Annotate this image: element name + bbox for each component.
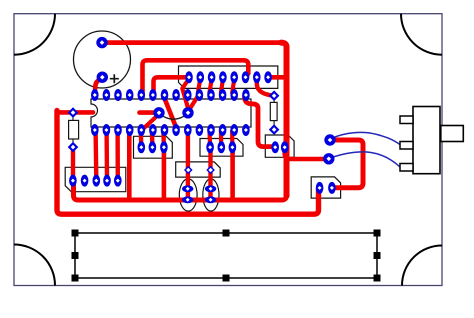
wires box X1 pads up to IC1 bottom pads	[139, 131, 144, 147]
wire diag round pad1 to IC1 bottom pad5	[144, 115, 159, 129]
wire rail B: left vertical from y112 down, right along bottom to low-right box pad	[57, 111, 319, 215]
connector X1 3-pad box	[134, 136, 173, 158]
via pads R1	[68, 107, 79, 152]
wire box X2 pad3 down to rail A	[230, 148, 235, 198]
jumper JP1 diamond pads	[184, 166, 215, 175]
box X1 pads	[138, 141, 168, 153]
wire column jumper/caps C2	[186, 131, 190, 200]
wire IC2 pad1 down-left-down to round jumper pad2	[182, 79, 189, 109]
wire y77 from IC pad6 to IC2 pad1	[154, 77, 189, 94]
IC U1 pads bottom row	[91, 124, 250, 136]
wire main vertical right side	[281, 43, 287, 196]
selected rectangle component	[75, 233, 377, 278]
corner arc top-right	[401, 14, 442, 55]
jumper round pads	[153, 107, 193, 118]
capacitor C1 pads	[96, 37, 108, 83]
connector X2 3-pad box	[200, 139, 243, 157]
airwire 1	[331, 132, 400, 144]
electrolytic cap C2 outline	[179, 179, 197, 211]
wire IC1 pad4-bottom down to rail A	[127, 131, 132, 198]
via pads R2	[269, 90, 280, 134]
wire IC2 pad7 curve to via R2 top	[257, 78, 274, 96]
wire stub to round pad jumper 1	[140, 110, 156, 115]
component box 2-pad mid-right	[265, 135, 294, 157]
corner arc top-left	[14, 14, 55, 55]
wire via2 down to 5-box pad1	[71, 148, 75, 178]
wire box X1 pad3 down to rail A	[162, 148, 167, 198]
connector J1 pin 1	[400, 116, 413, 124]
jumper JP1 box	[176, 162, 221, 177]
wire main horiz: cap C1 top pad to right side	[103, 40, 281, 45]
wire column jumper/caps C3	[208, 148, 212, 200]
board outline	[14, 14, 442, 286]
electrolytic cap C3 outline	[203, 179, 219, 211]
wire IC1 pad14 bend down to mid-right box pad1	[245, 97, 273, 147]
wire mid-right box pad2 down-right to round pad, y159	[285, 149, 325, 160]
wire diag IC1 top pad7 to bottom pad8	[164, 97, 177, 129]
wire diag round pad2 up to IC1 pad10	[189, 97, 198, 111]
connector J1 pin 3	[400, 164, 413, 172]
IC U2 (SIL network) outline	[179, 66, 278, 88]
wire IC2 pad8 to main vertical	[268, 75, 284, 80]
box X2 pads	[206, 141, 236, 153]
wire rail A: bottom horizontal to 5-pad box pad 1	[74, 178, 287, 200]
capacitor C1 outline	[74, 31, 131, 88]
right round pads	[323, 134, 336, 164]
IC U2 pads	[185, 71, 272, 83]
corner arc bottom-left	[14, 245, 55, 286]
resistor R2 outline	[273, 97, 275, 128]
airwire 2	[330, 152, 400, 167]
electrolytic C2 pads	[182, 185, 193, 203]
mid-right box pads	[271, 141, 288, 153]
wires IC1 bottom pads 1-3 down to 5-pad box	[93, 131, 98, 179]
connector J1 pin 2	[400, 142, 413, 150]
wires IC2 pads 2-5 down to IC1 top pads	[198, 80, 200, 93]
IC U1 pads top row	[91, 89, 250, 101]
5-pad box pads	[69, 175, 122, 187]
jumper arc silk	[159, 114, 188, 120]
low-right box pads	[316, 182, 336, 194]
connector X3 5-pad box	[65, 167, 126, 191]
component box 2-pad low-right	[311, 177, 340, 198]
wire cap C1 bottom pad down to IC pad 1	[95, 80, 100, 96]
wire left horiz y112 to IC notch	[57, 110, 93, 115]
wire U-loop from round pad upper to low-right box pad2	[332, 140, 363, 188]
IC U1 outline	[91, 99, 251, 127]
wire top loop y60 from IC pad5 to IC2 pad6	[143, 60, 249, 94]
selection handles	[72, 230, 381, 282]
wires box X2 pads up to IC1 bottom pads	[207, 131, 212, 147]
connector J1 right tab	[441, 126, 464, 142]
electrolytic C3 pads	[205, 185, 216, 203]
connector J1 body	[413, 107, 440, 174]
corner arc bottom-right	[402, 246, 442, 286]
resistor R1 outline	[72, 114, 74, 146]
